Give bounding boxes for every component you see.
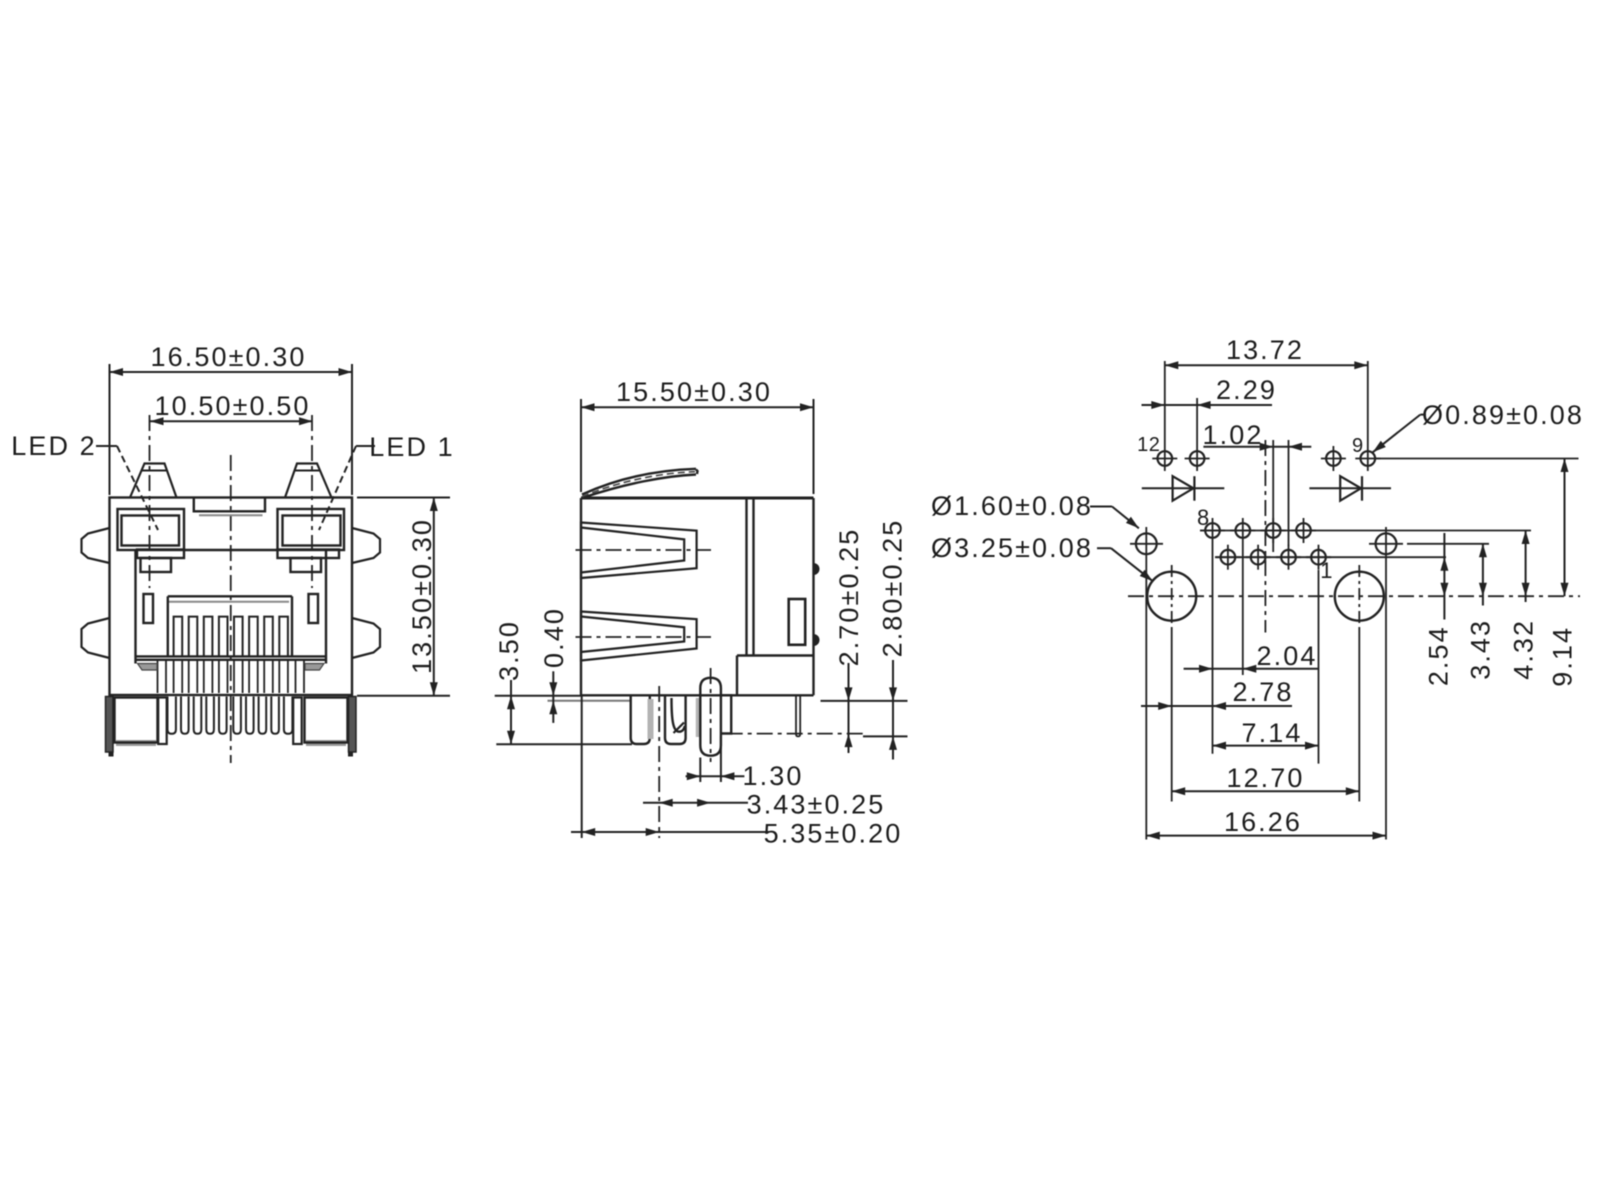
- svg-text:16.26: 16.26: [1224, 807, 1302, 837]
- svg-text:Ø3.25±0.08: Ø3.25±0.08: [931, 533, 1093, 563]
- label Ø0.89±0.08 with leader: [1373, 400, 1584, 452]
- svg-text:Ø0.89±0.08: Ø0.89±0.08: [1422, 400, 1584, 430]
- label LED 2 with leader: [11, 431, 158, 530]
- svg-text:2.54: 2.54: [1424, 625, 1454, 686]
- dimension 3.50: [494, 620, 524, 744]
- LED row extension to 9.14: [1376, 458, 1579, 460]
- row B horizontal line: [1215, 556, 1446, 558]
- mounting hole right Ø3.25: [1335, 565, 1384, 629]
- narrow tab left: [158, 698, 167, 745]
- PCB pin: [796, 695, 800, 736]
- dimension 9.14: [1548, 459, 1578, 687]
- LED diode symbol left: [1142, 476, 1225, 501]
- hole centerline horizontal: [1128, 595, 1580, 597]
- dimension 2.04: [1184, 641, 1319, 673]
- EMI spring wing upper left: [82, 528, 110, 563]
- dimension 1.30 peg width: [686, 736, 804, 791]
- extension pad12 up: [1164, 361, 1166, 446]
- svg-text:4.32: 4.32: [1509, 619, 1539, 680]
- hole right Ø1.60: [1369, 527, 1403, 561]
- dimension 13.50±0.30 height: [357, 498, 450, 696]
- left guide rib: [144, 594, 154, 623]
- narrow tab right: [293, 698, 302, 745]
- pad 4: [1261, 518, 1286, 543]
- svg-text:0.40: 0.40: [539, 607, 569, 668]
- label Ø1.60±0.08 with leader: [931, 491, 1139, 528]
- LED 2 window (left): [118, 509, 185, 550]
- center axis: [1264, 440, 1266, 633]
- socket opening outline: [136, 550, 327, 664]
- svg-text:3.50: 3.50: [494, 620, 524, 681]
- svg-text:9: 9: [1352, 435, 1364, 457]
- solder pad on rear block: [789, 599, 806, 645]
- posts bottom extension line: [496, 743, 632, 745]
- LED light pipe bump right: [285, 464, 332, 498]
- dimension 4.32: [1509, 531, 1539, 680]
- svg-text:2.04: 2.04: [1257, 641, 1318, 671]
- weld dimple lower: [814, 634, 820, 646]
- svg-text:12: 12: [1137, 434, 1160, 456]
- right extension lines for 2.70 / 2.80: [821, 701, 908, 737]
- LED light pipe bump left: [130, 464, 177, 498]
- pad 10: [1321, 446, 1346, 471]
- opening bottom corner shade left: [138, 664, 158, 671]
- svg-text:7.14: 7.14: [1242, 718, 1303, 748]
- dimension 2.80±0.25: [878, 519, 908, 760]
- snap post front half: [631, 695, 650, 744]
- peg centerline: [710, 668, 712, 762]
- dimension 2.70±0.25: [834, 528, 864, 753]
- svg-text:1.02: 1.02: [1203, 420, 1264, 450]
- svg-text:15.50±0.30: 15.50±0.30: [616, 377, 772, 407]
- svg-text:16.50±0.30: 16.50±0.30: [151, 342, 307, 372]
- opening bottom corner shade right: [305, 664, 324, 671]
- extension big circle left down: [1171, 629, 1173, 802]
- dimension 16.26: [1146, 807, 1386, 840]
- extension pad3 up: [1288, 440, 1290, 546]
- shield foot box right: [305, 698, 348, 747]
- seating plane line: [727, 733, 865, 735]
- pad 5: [1246, 545, 1271, 570]
- O1.60 row extension: [1407, 543, 1489, 545]
- LED 2 centerline: [149, 415, 151, 588]
- dimension 0.40: [539, 607, 569, 723]
- svg-text:3.43±0.25: 3.43±0.25: [747, 790, 886, 820]
- svg-text:1: 1: [1320, 558, 1333, 583]
- dimension 15.50±0.30 depth: [581, 377, 814, 494]
- svg-text:LED 2: LED 2: [11, 431, 97, 461]
- shield bottom edge (0.40 step): [548, 700, 632, 702]
- dimension 5.35±0.20: [571, 695, 902, 848]
- dimension 2.78: [1141, 677, 1293, 710]
- extension pad9 up: [1367, 361, 1369, 446]
- svg-text:2.78: 2.78: [1233, 677, 1294, 707]
- pad 2: [1291, 518, 1316, 543]
- dimension 3.43±0.25: [643, 790, 885, 820]
- svg-text:LED 1: LED 1: [369, 432, 455, 462]
- centerline front view: [230, 455, 232, 763]
- EMI spring wing upper right: [352, 528, 380, 563]
- upper latch wedge: [576, 523, 712, 579]
- dimension 13.72: [1165, 335, 1368, 369]
- dimension 1.02: [1203, 420, 1312, 451]
- latch spring curve: [582, 469, 698, 498]
- EMI spring wing lower right: [352, 618, 380, 658]
- extension pad1 down: [1318, 570, 1320, 764]
- shield tab behind peg: [721, 695, 731, 733]
- pad 6: [1230, 518, 1255, 543]
- extension pad4 up: [1272, 440, 1274, 552]
- dimension 3.43: [1466, 544, 1496, 680]
- svg-text:3.43: 3.43: [1466, 619, 1496, 680]
- weld dimple upper: [814, 563, 820, 575]
- step mouldings under right LED window: [278, 550, 340, 573]
- EMI spring wing lower left: [82, 618, 110, 658]
- pad 7: [1215, 545, 1240, 570]
- LED 1 window (right): [278, 509, 345, 550]
- extension small circle left down: [1145, 561, 1147, 840]
- svg-text:2.70±0.25: 2.70±0.25: [834, 528, 864, 667]
- extension small circle right down: [1385, 561, 1387, 840]
- snap post rear half with hook: [648, 695, 701, 744]
- svg-text:2.80±0.25: 2.80±0.25: [878, 519, 908, 658]
- opening bottom shelf: [136, 656, 327, 659]
- 8 contact slots: [174, 617, 288, 657]
- side body outline: [581, 498, 814, 695]
- extension big circle right down: [1358, 629, 1360, 802]
- shield foot box left: [115, 698, 158, 747]
- rear block step: [737, 656, 814, 696]
- svg-text:Ø1.60±0.08: Ø1.60±0.08: [931, 491, 1093, 521]
- svg-text:1.30: 1.30: [743, 761, 804, 791]
- label Ø3.25±0.08 with leader: [931, 533, 1153, 581]
- extension pad11 up: [1196, 398, 1198, 446]
- dimension 7.14: [1213, 718, 1319, 750]
- dimension 2.54: [1424, 533, 1454, 686]
- locating peg: [700, 678, 721, 756]
- LED diode symbol right: [1309, 476, 1391, 501]
- right guide rib: [309, 594, 319, 623]
- svg-text:2.29: 2.29: [1216, 375, 1277, 405]
- svg-text:13.72: 13.72: [1226, 335, 1304, 365]
- pad 1: [1306, 545, 1331, 570]
- post centerline: [658, 686, 660, 838]
- LED 1 centerline: [311, 415, 313, 588]
- shield side tab right (dark): [348, 697, 356, 757]
- contact comb block: [168, 596, 292, 656]
- hole left Ø1.60: [1130, 527, 1163, 561]
- row A horizontal line: [1200, 530, 1531, 532]
- svg-text:8: 8: [1197, 505, 1210, 530]
- rear wall lines: [747, 498, 754, 656]
- extension pad8 down: [1212, 543, 1214, 754]
- pad 8: [1200, 518, 1225, 543]
- contact tails below shelf: [158, 660, 305, 693]
- dimension 2.29: [1142, 375, 1277, 409]
- lower latch wedge: [576, 612, 712, 661]
- svg-text:12.70: 12.70: [1226, 763, 1304, 793]
- dimension 12.70: [1172, 763, 1360, 795]
- svg-text:13.50±0.30: 13.50±0.30: [407, 518, 437, 674]
- pad 11: [1185, 446, 1210, 471]
- bottom extension line left: [495, 695, 581, 697]
- label LED 1 with leader: [319, 432, 455, 530]
- bottom shield finger comb: [168, 697, 293, 734]
- pad 12: [1152, 446, 1177, 471]
- extension pad6 down: [1242, 543, 1244, 675]
- dimension 10.50±0.50 LED spacing: [150, 391, 313, 425]
- svg-text:5.35±0.20: 5.35±0.20: [764, 819, 903, 849]
- mounting hole left Ø3.25: [1147, 565, 1196, 629]
- pad 3: [1276, 545, 1301, 570]
- svg-text:9.14: 9.14: [1548, 626, 1578, 687]
- dimension 16.50±0.30 overall width: [110, 342, 353, 495]
- shield side tab left (dark): [106, 697, 114, 757]
- svg-text:10.50±0.50: 10.50±0.50: [155, 391, 311, 421]
- pad 9: [1355, 446, 1380, 471]
- top center tab: [194, 498, 265, 516]
- step mouldings under left LED window: [137, 550, 184, 573]
- jack body outline (front): [110, 498, 353, 696]
